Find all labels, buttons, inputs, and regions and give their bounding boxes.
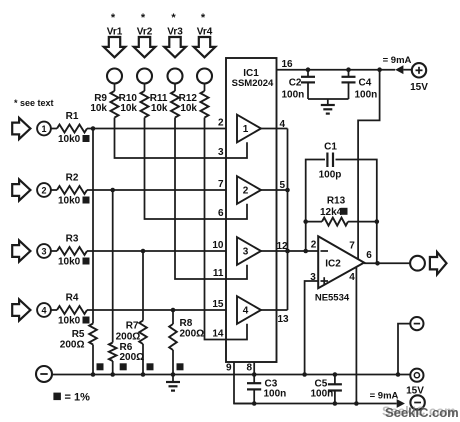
svg-text:*: * [201,12,206,24]
wire pin 8 to 0V bus [253,362,255,375]
wire +15 rail with jog to IC2 pin 7 [358,70,380,259]
wire 0V bus [52,374,410,376]
svg-text:*: * [111,12,116,24]
svg-text:200Ω: 200Ω [116,332,141,343]
resistor R1 [57,125,87,133]
terminal -15V circle [410,395,424,409]
arrow Vr1 wiper [104,37,126,57]
svg-text:R4: R4 [66,293,79,304]
junction R6 bus [110,372,115,377]
junction input 1 [91,126,96,131]
svg-text:100n: 100n [311,389,334,400]
junction pin3 bus [302,372,307,377]
junction input 2 [110,188,115,193]
resistor R10 [141,91,149,118]
svg-text:NE5534: NE5534 [315,293,350,304]
wire pin 9 to -15V line [234,362,254,404]
resistor R11 [171,91,179,118]
wire R7 to 0V bus [142,344,144,375]
wire Vr4 circle to R12 [204,84,206,92]
svg-text:SeekIC.com: SeekIC.com [385,405,459,420]
svg-text:7: 7 [218,179,224,190]
resistor R7 [139,321,147,345]
svg-text:*: * [171,12,176,24]
junction R7 bus [141,372,146,377]
svg-text:100n: 100n [282,90,305,101]
terminal circle Vr2 [137,69,152,84]
terminal output circle [410,256,425,271]
1% square for R7 [147,363,154,370]
svg-text:10: 10 [212,240,224,251]
svg-text:= 9mA: = 9mA [383,55,412,66]
wire feedback left to summing node [305,222,307,251]
junction C3 bottom [252,401,257,406]
svg-text:3: 3 [218,147,224,158]
resistor R5 [89,324,97,345]
wire join to ground [327,99,329,105]
wire control into amp 1 [226,142,247,158]
svg-text:Vr3: Vr3 [167,27,183,38]
svg-text:6: 6 [366,250,372,261]
svg-text:R8: R8 [180,318,193,329]
minus sign -15V [414,402,421,404]
wire input 3 to R3 [51,250,57,252]
svg-text:IC2: IC2 [325,259,341,270]
resistor R13 [322,218,348,226]
arrow Vr2 wiper [134,37,156,57]
junction pin4 -15V [354,401,359,406]
svg-text:1: 1 [243,124,249,135]
wire R3 to IC1 pin [87,250,226,252]
capacitor C5 [334,375,336,384]
terminal circle Vr1 [107,69,122,84]
svg-text:*: * [141,12,146,24]
resistor R4 [57,306,87,314]
terminal +15V circle [412,63,426,77]
svg-text:100p: 100p [319,170,342,181]
resistor R8 [169,324,177,350]
junction summing node bus [285,249,290,254]
junction summing node feedback [303,249,308,254]
svg-text:3: 3 [41,247,46,257]
wire R12 to IC1 control pin [205,118,227,340]
input terminal circle 2 [37,183,51,197]
svg-text:14: 14 [212,329,224,340]
junction bus pin 12 [285,249,290,254]
svg-text:100n: 100n [355,90,378,101]
wire control into amp 3 [226,265,247,279]
plus sign IC2 [321,280,329,282]
minus sign IC2 [321,250,329,252]
wire output bus [287,129,289,311]
svg-text:4: 4 [243,306,249,317]
wire column to R6 [112,190,114,343]
wire input 1 to R1 [51,128,57,130]
svg-text:8: 8 [247,363,253,374]
1% square for R4 [83,317,90,324]
output arrow [430,252,447,274]
svg-text:200Ω: 200Ω [180,329,205,340]
arrow Vr3 wiper [164,37,186,57]
svg-text:2: 2 [243,186,249,197]
svg-text:13: 13 [278,314,290,325]
svg-text:3: 3 [243,247,249,258]
legend 1% square [53,393,61,401]
ground symbol top [321,104,335,106]
wire column to R7 [142,251,144,321]
wire pin 16 [277,69,396,71]
wire column to R8 [172,310,174,324]
junction bus pin 5 [285,188,290,193]
junction R13 left [303,219,308,224]
current arrowhead right [397,399,405,408]
svg-text:5: 5 [280,180,286,191]
op-amp IC1 box SSM2024 [226,58,277,362]
arrow Vr4 wiper [194,37,216,57]
wire R11 to IC1 control pin [175,118,226,280]
svg-text:100n: 100n [264,389,287,400]
1% square for R6 [120,363,127,370]
input arrow 3 [12,240,30,261]
svg-text:4: 4 [41,306,46,316]
junction C5 bottom [333,401,338,406]
amp 4 triangle inside IC1 [237,296,261,324]
svg-text:Vr1: Vr1 [107,27,123,38]
1% square for R2 [83,197,90,204]
svg-text:10k: 10k [151,103,168,114]
svg-text:= 9mA: = 9mA [370,391,399,402]
wire IC2 pin 4 to -15V line [355,267,357,403]
input arrow 2 [12,179,30,200]
svg-text:SSM2024: SSM2024 [232,78,274,89]
svg-text:12k4: 12k4 [320,207,343,218]
svg-text:4: 4 [280,119,286,130]
junction C2 pin16 [306,67,311,72]
current arrowhead left [395,65,403,74]
wire C1 row left [306,160,325,222]
wire R5 to 0V bus [92,345,94,375]
svg-text:10k: 10k [90,103,107,114]
wire input 2 to R2 [51,189,57,191]
svg-text:C4: C4 [359,78,372,89]
wire Vr3 circle to R11 [174,84,176,92]
wire column to R5 [92,129,94,324]
junction R5 bus [91,372,96,377]
wire R6 to 0V bus [112,361,114,375]
svg-text:10k0: 10k0 [58,257,81,268]
ground symbol bottom [172,375,174,382]
wire R10 to IC1 control pin [145,118,227,220]
wire C2 C4 ground join [308,98,349,100]
svg-text:200Ω: 200Ω [120,352,145,363]
minus sign input terminal [40,373,47,375]
wire R9 to IC1 control pin [115,118,227,159]
wire R13 row left [306,221,322,223]
svg-text:6: 6 [218,208,224,219]
svg-text:= 1%: = 1% [65,392,91,404]
terminal minus upper circle [410,317,423,330]
capacitor C2 [307,70,309,77]
svg-text:10k0: 10k0 [58,316,81,327]
svg-text:R7: R7 [126,321,139,332]
wire amp3 output pin 12 to summing node [261,250,318,252]
input terminal circle 1 [37,122,51,136]
junction C4 pin16 [346,67,351,72]
terminal circle Vr4 [197,69,212,84]
junction R8 bus [171,372,176,377]
wire amp4 output pin 13 [261,309,288,311]
svg-text:200Ω: 200Ω [60,340,85,351]
terminal 0V circle [410,369,423,382]
1% square for R5 [97,363,104,370]
wire minus terminal to 0V bus [398,324,410,375]
wire R4 to IC1 pin [87,309,226,311]
junction input 4 [171,308,176,313]
svg-text:15: 15 [212,299,224,310]
wire IC2 pin 3 to 0V bus [305,281,319,375]
input terminal circle 4 [37,303,51,317]
junction 0V terminal [396,372,401,377]
svg-text:10k0: 10k0 [58,196,81,207]
svg-text:11: 11 [213,268,224,279]
terminal minus input circle [36,366,52,382]
svg-text:4: 4 [349,272,355,283]
terminal circle Vr3 [168,69,183,84]
junction +15 rail pin16 [377,67,382,72]
svg-text:* see text: * see text [14,98,54,108]
1% square for R13 [341,208,348,215]
junction input 3 [141,249,146,254]
svg-text:2: 2 [41,186,46,196]
resistor R2 [57,186,87,194]
svg-text:2: 2 [311,240,317,251]
junction C3 top [252,372,257,377]
amp 1 triangle inside IC1 [237,115,261,143]
svg-text:1: 1 [41,124,46,134]
svg-text:10k: 10k [120,103,137,114]
resistor R3 [57,247,87,255]
op-amp IC2 triangle [318,236,364,288]
wire input 4 to R4 [51,309,57,311]
svg-text:R1: R1 [66,111,79,122]
resistor R6 [109,343,117,362]
svg-text:R2: R2 [66,173,79,184]
svg-text:10k: 10k [180,103,197,114]
plus sign in +15V [416,69,423,71]
1% square for R3 [83,258,90,265]
wire R2 to IC1 pin [87,189,226,191]
wire feedback right to output node [376,222,378,264]
resistor R12 [201,91,209,118]
svg-text:R3: R3 [66,234,79,245]
svg-text:C2: C2 [289,78,302,89]
wire Vr2 circle to R10 [144,84,146,92]
wire R1 to IC1 pin [87,128,226,130]
svg-text:R5: R5 [72,329,85,340]
wire -15V line [234,403,397,405]
svg-text:Vr2: Vr2 [137,27,153,38]
wire arrow to +15V terminal [403,69,412,71]
svg-text:Vr4: Vr4 [197,27,213,38]
svg-text:10k0: 10k0 [58,134,81,145]
svg-text:C1: C1 [324,142,337,153]
capacitor C4 [348,70,350,77]
junction C5 top [333,372,338,377]
svg-text:R13: R13 [327,196,346,207]
amp 3 triangle inside IC1 [237,237,261,265]
wire R13 row right [348,221,377,223]
junction R13 right [375,219,380,224]
input terminal circle 3 [37,244,51,258]
wire IC2 output [364,262,410,264]
wire control into amp 4 [226,324,247,340]
svg-text:15V: 15V [410,82,428,93]
svg-text:16: 16 [282,59,294,70]
wire C1 row right [336,160,377,222]
input arrow 4 [12,299,30,320]
wire Vr1 circle to R9 [114,84,116,92]
svg-text:7: 7 [349,241,355,252]
letter O inside 0V terminal [414,373,419,378]
input arrow 1 [12,118,30,139]
capacitor C3 [253,375,255,383]
svg-text:9: 9 [226,363,232,374]
1% square for R8 [177,363,184,370]
junction output feedback [375,261,380,266]
capacitor C1 [326,153,328,168]
amp 2 triangle inside IC1 [237,176,261,204]
svg-text:2: 2 [218,118,224,129]
wire R8 to 0V bus [172,350,174,375]
1% square for R1 [83,135,90,142]
minus sign upper [414,323,420,325]
resistor R9 [111,91,119,118]
wire amp2 output pin 5 [261,189,288,191]
wire amp1 output pin 4 [261,128,288,130]
wire control into amp 2 [226,204,247,219]
